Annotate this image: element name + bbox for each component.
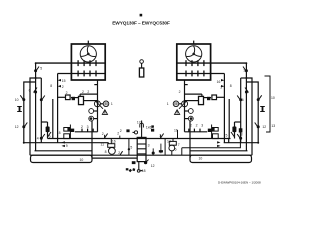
svg-text:16: 16 [174,128,178,132]
svg-text:2: 2 [82,90,84,94]
svg-text:3: 3 [201,123,203,127]
svg-text:8: 8 [50,84,52,88]
svg-text:13: 13 [271,124,275,128]
svg-text:12: 12 [151,164,155,168]
svg-text:2: 2 [102,132,104,136]
svg-text:14: 14 [167,139,171,143]
svg-text:15: 15 [62,79,66,83]
svg-text:1: 1 [167,102,169,106]
svg-text:18: 18 [142,169,146,173]
svg-text:12: 12 [15,125,19,129]
svg-text:17: 17 [137,120,141,124]
svg-text:4: 4 [37,137,39,141]
svg-text:9: 9 [66,144,68,148]
svg-text:5: 5 [130,145,132,149]
svg-text:7: 7 [178,143,180,147]
svg-text:3: 3 [148,144,150,148]
svg-text:10: 10 [80,158,84,162]
svg-text:2: 2 [190,123,192,127]
svg-text:D-EIMWP00104-16EN – 1/2008: D-EIMWP00104-16EN – 1/2008 [218,181,261,185]
svg-text:6: 6 [49,134,51,138]
svg-text:6: 6 [175,147,177,151]
svg-text:6: 6 [29,89,31,93]
svg-text:2: 2 [66,91,68,95]
svg-text:10: 10 [15,98,19,102]
svg-text:10: 10 [271,96,275,100]
svg-text:2: 2 [81,125,83,129]
svg-text:1x6A: 1x6A [146,125,154,129]
svg-text:2: 2 [220,86,222,90]
svg-text:2: 2 [62,85,64,89]
svg-text:12: 12 [262,125,266,129]
svg-text:2: 2 [120,129,122,133]
svg-text:2: 2 [159,133,161,137]
svg-text:3: 3 [243,68,245,72]
svg-text:11: 11 [101,143,105,147]
svg-text:2: 2 [179,90,181,94]
svg-text:EWYQ130F – EWYQC530F: EWYQ130F – EWYQC530F [112,21,170,27]
svg-text:2: 2 [118,151,120,155]
svg-text:16: 16 [217,80,221,84]
svg-text:16: 16 [112,140,116,144]
svg-text:2: 2 [196,123,198,127]
svg-text:5: 5 [226,133,228,137]
svg-text:8: 8 [241,133,243,137]
svg-text:10: 10 [199,157,203,161]
svg-text:8: 8 [59,131,61,135]
svg-text:2: 2 [87,90,89,94]
svg-text:3: 3 [87,125,89,129]
svg-text:6: 6 [242,98,244,102]
svg-text:5: 5 [40,66,42,70]
svg-text:8: 8 [105,150,107,154]
svg-text:8: 8 [230,84,232,88]
svg-text:1: 1 [111,102,113,106]
